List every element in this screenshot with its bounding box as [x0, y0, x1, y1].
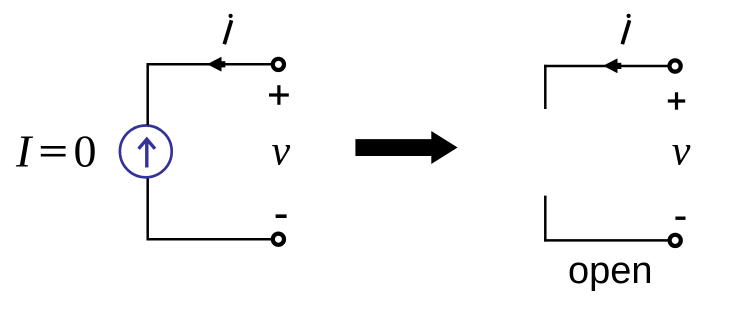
current arrow left: [207, 57, 225, 72]
svg-text:v: v: [672, 129, 691, 175]
svg-text:I: I: [15, 126, 34, 177]
wire left-top vertical: [146, 63, 149, 125]
svg-text:open: open: [568, 250, 653, 292]
label plus left: [269, 85, 289, 105]
wire left-bottom horizontal: [147, 238, 272, 241]
wire right-top vertical stub: [544, 65, 547, 109]
svg-text:v: v: [272, 129, 291, 175]
terminal left-bottom: [273, 234, 284, 245]
label minus right: [675, 216, 685, 219]
wire left-bottom vertical: [146, 179, 149, 241]
terminal left-top: [273, 59, 284, 70]
wire right-bottom horizontal: [544, 239, 668, 242]
current source I1: [120, 125, 172, 177]
label I = 0: [15, 126, 97, 177]
svg-text:0: 0: [74, 126, 97, 177]
wire left-top horizontal: [147, 63, 272, 66]
implication arrow: [355, 131, 457, 164]
wire right-top horizontal: [544, 65, 668, 68]
current arrow right: [603, 58, 621, 73]
label i left: [224, 14, 232, 44]
terminal right-bottom: [670, 235, 681, 246]
wire right-bottom vertical stub: [544, 196, 547, 242]
label plus right: [668, 92, 685, 109]
label i right: [622, 14, 630, 44]
terminal right-top: [670, 60, 681, 71]
label minus left: [276, 214, 287, 218]
